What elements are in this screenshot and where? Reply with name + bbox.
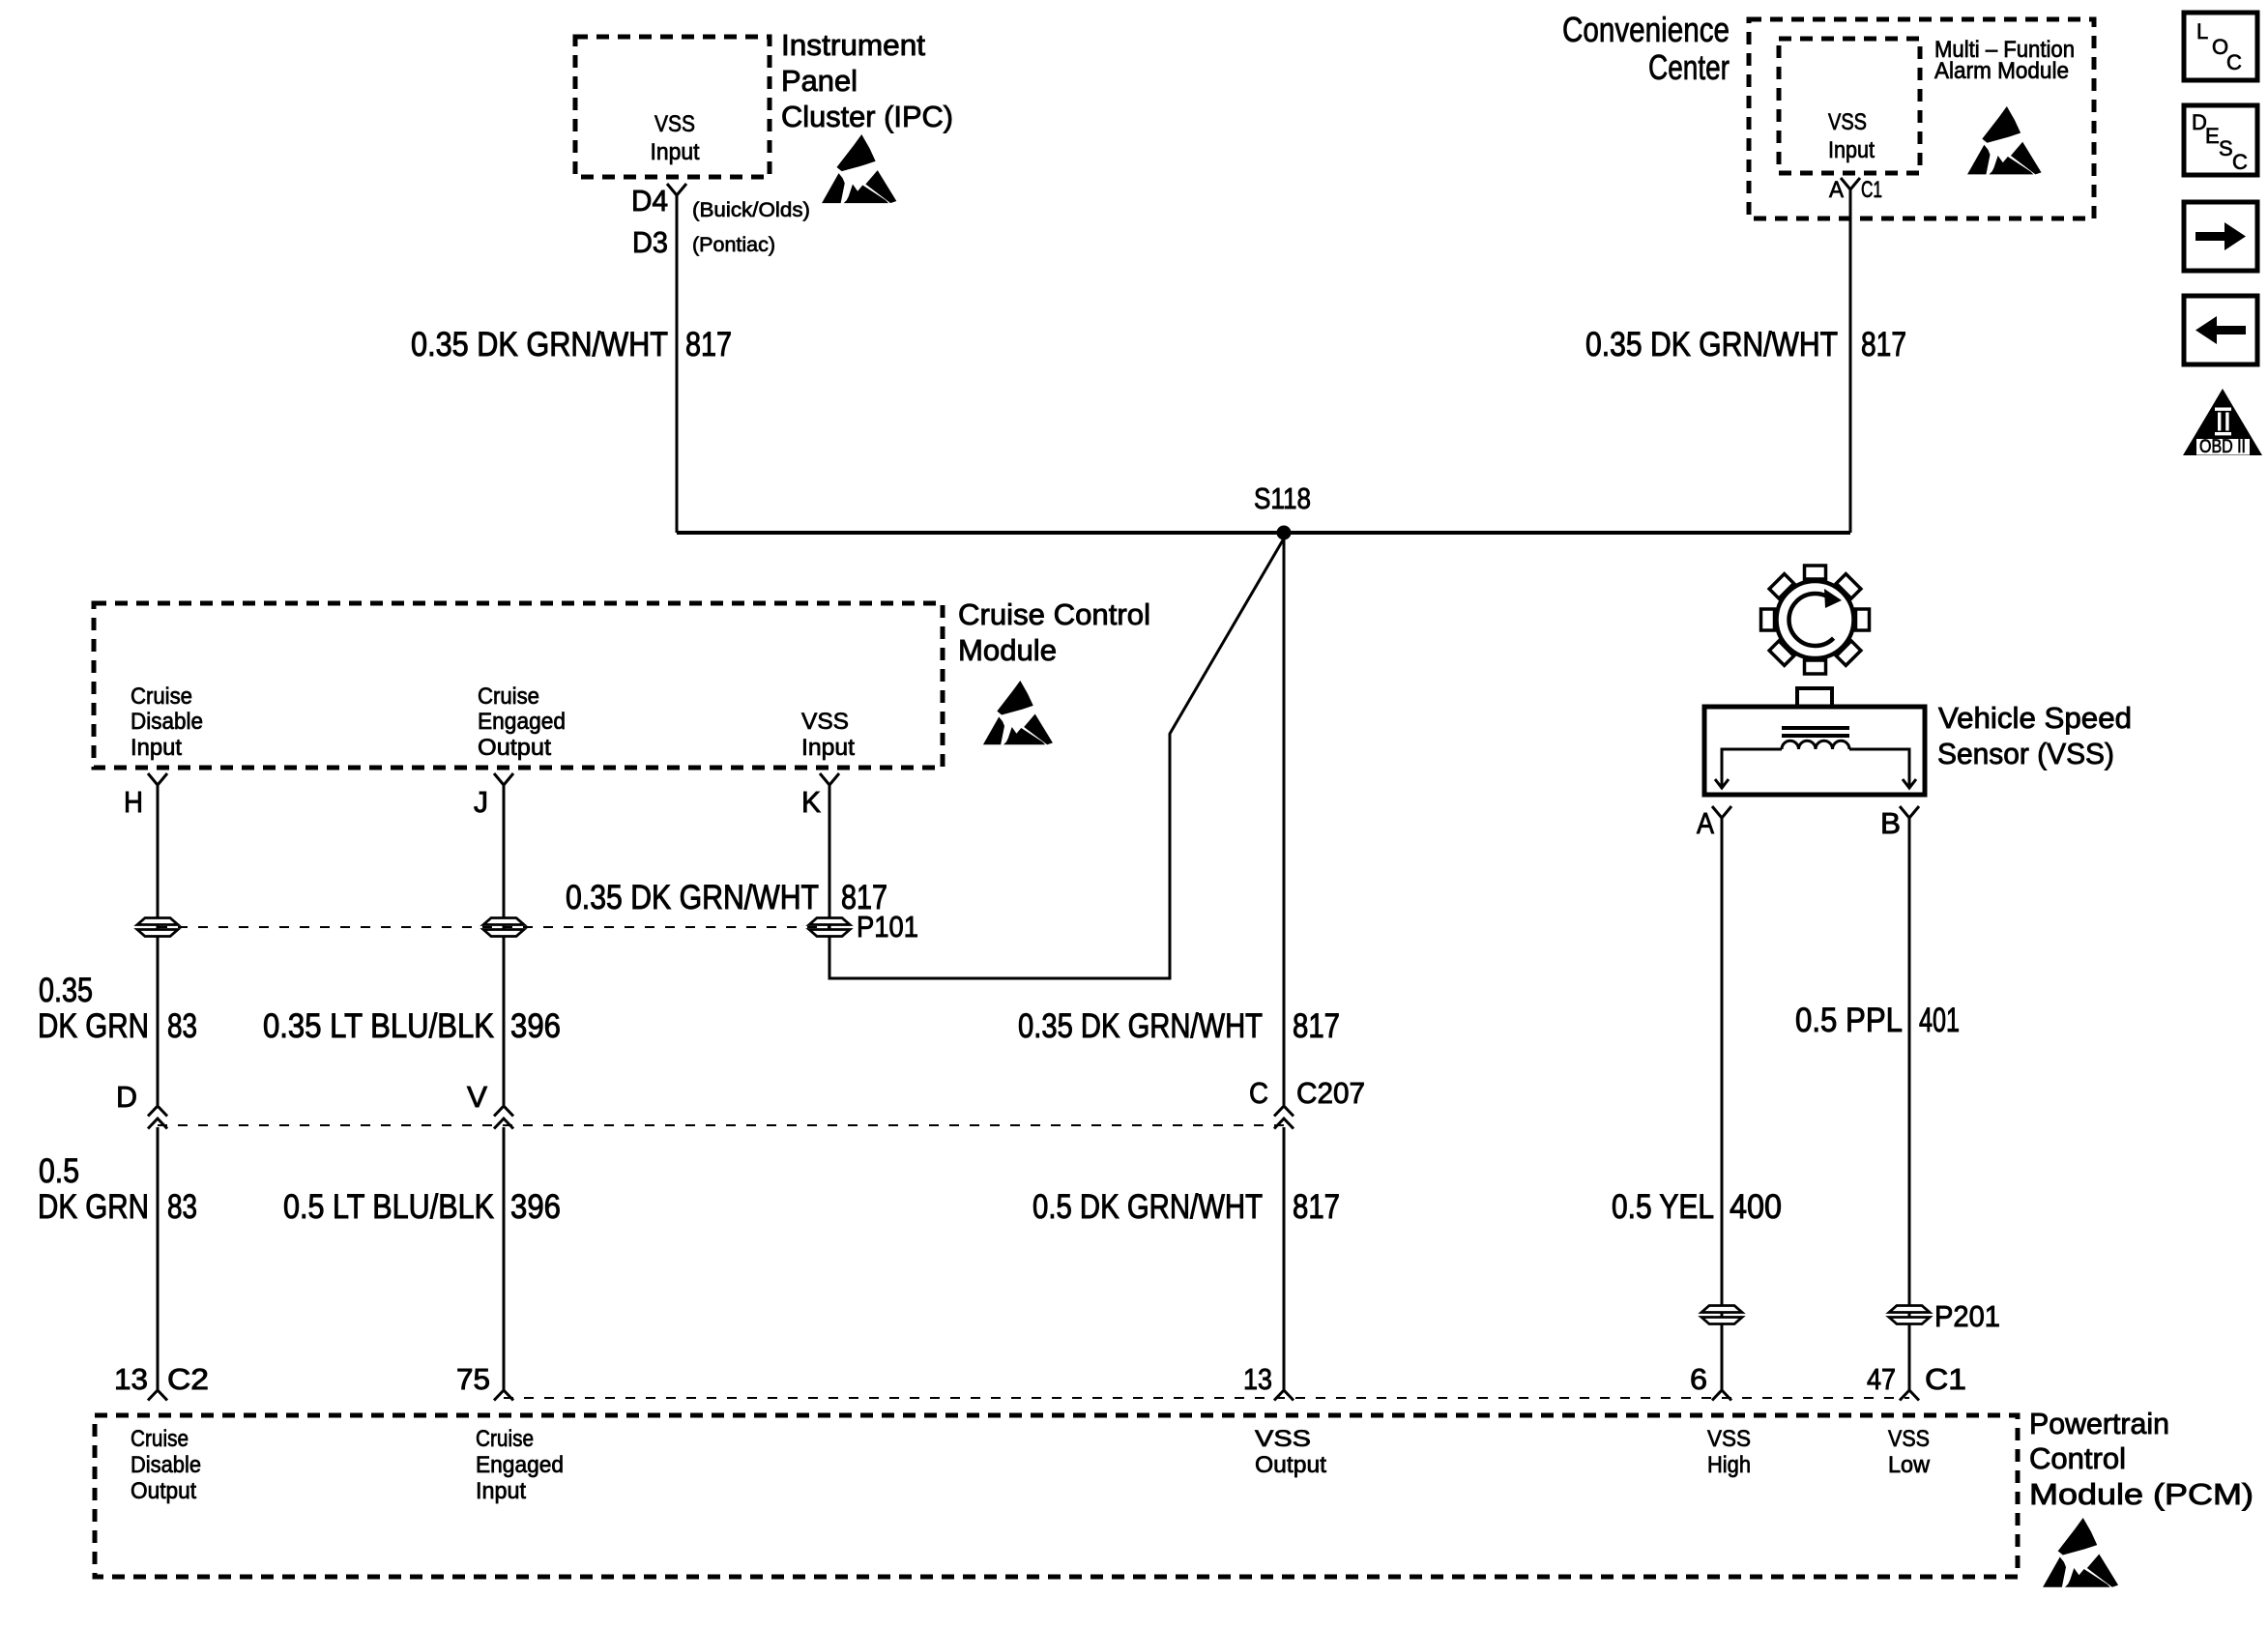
svg-text:Output: Output bbox=[1255, 1452, 1326, 1478]
svg-text:VSS: VSS bbox=[1255, 1426, 1311, 1452]
svg-text:0.35 DK GRN/WHT: 0.35 DK GRN/WHT bbox=[566, 879, 819, 916]
svg-text:0.5 PPL: 0.5 PPL bbox=[1795, 1002, 1903, 1039]
svg-text:Input: Input bbox=[651, 139, 700, 165]
svg-text:H: H bbox=[124, 785, 143, 819]
svg-text:C2: C2 bbox=[167, 1362, 209, 1396]
svg-text:Center: Center bbox=[1648, 47, 1730, 87]
svg-text:Input: Input bbox=[131, 735, 182, 761]
svg-text:Input: Input bbox=[1828, 137, 1875, 163]
svg-text:C1: C1 bbox=[1861, 177, 1882, 203]
svg-text:Control: Control bbox=[2029, 1441, 2126, 1475]
svg-text:817: 817 bbox=[1861, 326, 1906, 363]
svg-text:P101: P101 bbox=[857, 910, 918, 944]
svg-text:0.5: 0.5 bbox=[39, 1152, 79, 1190]
svg-text:Disable: Disable bbox=[131, 709, 203, 735]
svg-text:Panel: Panel bbox=[781, 64, 858, 98]
svg-text:Sensor (VSS): Sensor (VSS) bbox=[1937, 737, 2114, 770]
svg-text:S118: S118 bbox=[1254, 481, 1311, 515]
svg-text:V: V bbox=[467, 1080, 487, 1114]
svg-text:Instrument: Instrument bbox=[781, 28, 925, 62]
svg-text:(Buick/Olds): (Buick/Olds) bbox=[692, 199, 810, 221]
svg-text:Alarm Module: Alarm Module bbox=[1934, 58, 2069, 84]
svg-text:Convenience: Convenience bbox=[1562, 10, 1730, 49]
svg-text:P201: P201 bbox=[1934, 1299, 2000, 1333]
svg-text:K: K bbox=[801, 785, 821, 819]
svg-text:Cruise: Cruise bbox=[131, 1426, 189, 1452]
svg-text:401: 401 bbox=[1919, 1002, 1960, 1039]
svg-text:13: 13 bbox=[1243, 1362, 1272, 1396]
svg-text:C: C bbox=[2226, 50, 2242, 74]
svg-text:DK GRN: DK GRN bbox=[38, 1188, 149, 1226]
svg-text:C: C bbox=[1249, 1076, 1268, 1110]
svg-text:13: 13 bbox=[114, 1362, 148, 1396]
svg-text:VSS: VSS bbox=[1828, 109, 1867, 135]
svg-text:Module (PCM): Module (PCM) bbox=[2029, 1477, 2253, 1511]
svg-text:Output: Output bbox=[131, 1478, 196, 1504]
svg-text:Input: Input bbox=[476, 1478, 526, 1504]
svg-text:0.5 DK GRN/WHT: 0.5 DK GRN/WHT bbox=[1032, 1188, 1263, 1226]
svg-text:Input: Input bbox=[801, 735, 855, 761]
svg-text:Disable: Disable bbox=[131, 1452, 201, 1478]
svg-text:47: 47 bbox=[1867, 1362, 1896, 1396]
svg-text:VSS: VSS bbox=[1707, 1426, 1751, 1452]
svg-text:0.5 LT BLU/BLK: 0.5 LT BLU/BLK bbox=[283, 1188, 494, 1226]
svg-text:6: 6 bbox=[1690, 1362, 1707, 1396]
svg-text:D4: D4 bbox=[631, 184, 668, 218]
svg-text:S: S bbox=[2219, 136, 2233, 160]
svg-text:D3: D3 bbox=[632, 225, 668, 259]
svg-text:D: D bbox=[116, 1080, 137, 1114]
svg-text:Engaged: Engaged bbox=[476, 1452, 564, 1478]
svg-text:E: E bbox=[2205, 124, 2220, 148]
svg-text:Cruise: Cruise bbox=[478, 683, 539, 710]
svg-text:Low: Low bbox=[1888, 1452, 1931, 1478]
svg-text:817: 817 bbox=[1293, 1007, 1340, 1045]
svg-text:OBD II: OBD II bbox=[2199, 437, 2246, 457]
svg-text:817: 817 bbox=[685, 326, 732, 363]
svg-text:VSS: VSS bbox=[801, 709, 849, 735]
svg-text:0.35 DK GRN/WHT: 0.35 DK GRN/WHT bbox=[1585, 326, 1838, 363]
svg-text:0.35 DK GRN/WHT: 0.35 DK GRN/WHT bbox=[411, 326, 668, 363]
svg-text:L: L bbox=[2196, 19, 2208, 44]
svg-text:(Pontiac): (Pontiac) bbox=[692, 234, 775, 256]
svg-text:Cruise: Cruise bbox=[131, 683, 192, 710]
svg-text:Vehicle Speed: Vehicle Speed bbox=[1938, 701, 2132, 735]
svg-text:C207: C207 bbox=[1296, 1076, 1365, 1110]
svg-text:Engaged: Engaged bbox=[478, 709, 566, 735]
svg-text:400: 400 bbox=[1730, 1188, 1782, 1226]
svg-text:DK GRN: DK GRN bbox=[38, 1007, 149, 1045]
svg-text:817: 817 bbox=[1293, 1188, 1340, 1226]
svg-text:VSS: VSS bbox=[1888, 1426, 1930, 1452]
svg-text:0.35 DK GRN/WHT: 0.35 DK GRN/WHT bbox=[1018, 1007, 1263, 1045]
svg-text:0.5 YEL: 0.5 YEL bbox=[1612, 1188, 1714, 1226]
svg-text:Powertrain: Powertrain bbox=[2029, 1407, 2169, 1440]
svg-text:C1: C1 bbox=[1925, 1362, 1966, 1396]
svg-text:396: 396 bbox=[510, 1007, 561, 1045]
svg-text:Cruise Control: Cruise Control bbox=[958, 597, 1150, 631]
svg-text:Cluster (IPC): Cluster (IPC) bbox=[781, 100, 953, 133]
svg-text:VSS: VSS bbox=[654, 111, 695, 137]
svg-text:J: J bbox=[474, 785, 488, 819]
svg-text:396: 396 bbox=[510, 1188, 561, 1226]
svg-text:83: 83 bbox=[167, 1188, 197, 1226]
svg-text:Output: Output bbox=[478, 735, 551, 761]
svg-text:A: A bbox=[1697, 806, 1714, 840]
svg-text:Cruise: Cruise bbox=[476, 1426, 534, 1452]
svg-text:B: B bbox=[1880, 806, 1901, 840]
svg-text:0.35: 0.35 bbox=[39, 972, 93, 1009]
svg-text:Module: Module bbox=[958, 633, 1057, 667]
svg-text:83: 83 bbox=[167, 1007, 197, 1045]
svg-text:0.35 LT BLU/BLK: 0.35 LT BLU/BLK bbox=[263, 1007, 494, 1045]
svg-text:High: High bbox=[1707, 1452, 1751, 1478]
svg-text:75: 75 bbox=[456, 1362, 490, 1396]
svg-text:A: A bbox=[1829, 177, 1844, 203]
svg-text:C: C bbox=[2232, 150, 2248, 174]
